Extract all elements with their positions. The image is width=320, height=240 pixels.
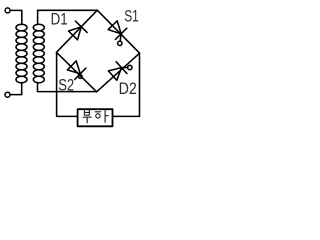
wire bridge arm D2 (bottom to right) bbox=[97, 53, 140, 92]
wire secondary top to bridge top node bbox=[38, 10, 98, 24]
wire secondary bottom to bridge bottom node bbox=[38, 82, 97, 91]
wire bridge arm D1 (left to top) bbox=[57, 10, 98, 52]
svg-text:D2: D2 bbox=[119, 80, 137, 98]
thyristor S2 bbox=[67, 61, 86, 80]
load box bbox=[78, 109, 113, 126]
thyristor S1 bbox=[108, 21, 127, 46]
svg-text:D1: D1 bbox=[51, 11, 68, 29]
secondary winding bbox=[33, 24, 44, 83]
wire primary top lead bbox=[10, 10, 22, 24]
label 부하 (load) drawn as strokes bbox=[83, 108, 109, 123]
wire right node down to load bbox=[113, 53, 140, 116]
svg-text:S2: S2 bbox=[58, 76, 74, 94]
wire left node down to load bbox=[57, 52, 78, 116]
thyristor D2 bbox=[108, 62, 132, 81]
terminal top-left bbox=[5, 8, 10, 13]
wire primary bottom lead bbox=[10, 82, 22, 94]
terminal bottom-left bbox=[5, 92, 10, 97]
diode D1 bbox=[69, 21, 88, 40]
wire bridge arm S1 (top to right) bbox=[97, 10, 139, 53]
wire bridge arm S2 (left to bottom) bbox=[57, 52, 97, 92]
primary winding bbox=[16, 24, 27, 83]
svg-text:S1: S1 bbox=[124, 7, 139, 25]
